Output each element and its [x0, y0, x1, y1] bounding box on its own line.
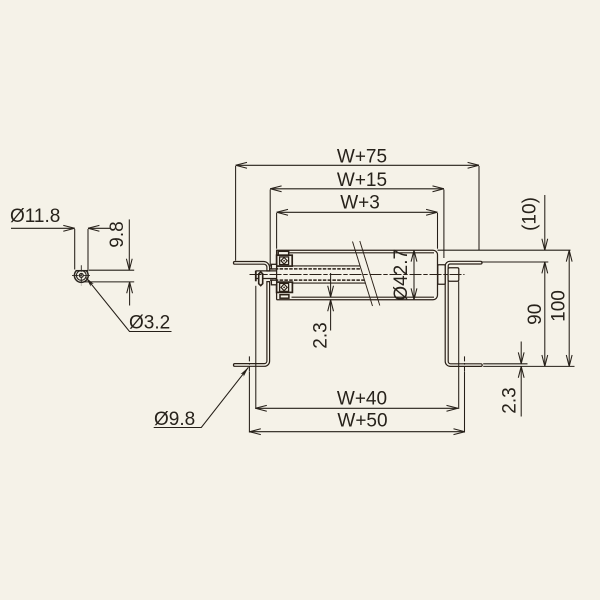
bottom bearing body: [277, 282, 293, 292]
right frame channel: [445, 261, 482, 366]
dim 2.3 left lower arrow: [330, 300, 332, 331]
bearing sleeve bottom line: [292, 282, 366, 284]
left shaft top edge: [256, 270, 277, 272]
ext dia11.8 left: [74, 229, 76, 270]
bearing sleeve top line: [292, 265, 361, 267]
right hole centerline and ext: [464, 356, 466, 371]
ext line shaft end left down: [255, 286, 257, 409]
ext line shaft end right down: [458, 282, 460, 410]
detail crosshair horizontal: [72, 274, 91, 276]
detail flat top: [76, 270, 89, 272]
dim W+50: [249, 431, 465, 433]
bottom bearing seal tab: [271, 280, 276, 285]
svg-text:W+75: W+75: [337, 147, 387, 168]
dim W+15: [270, 188, 444, 190]
break line right: [360, 241, 380, 306]
left frame web and bottom flange: [233, 282, 269, 367]
dim W+75: [236, 164, 479, 166]
bottom bearing ball center: [283, 287, 285, 289]
left shaft end face: [255, 271, 257, 282]
dim dia42.7: [413, 250, 415, 300]
left hole centerline and ext: [248, 356, 250, 371]
right shaft end through frame: [448, 268, 459, 282]
svg-text:W+15: W+15: [337, 170, 387, 191]
ext line W+3 right: [437, 213, 439, 249]
svg-text:9.8: 9.8: [107, 221, 128, 247]
ext 9.8 top: [89, 269, 134, 271]
bottom bearing cap: [280, 295, 289, 299]
dim 2.3 right lower arrow: [520, 366, 522, 416]
svg-text:W+40: W+40: [337, 389, 387, 410]
svg-text:(10): (10): [520, 197, 541, 231]
svg-text:90: 90: [525, 304, 546, 325]
top bearing ball center: [283, 260, 285, 262]
svg-text:W+50: W+50: [337, 411, 387, 432]
leader dia9.8: [154, 367, 249, 427]
dim 100: [568, 250, 570, 366]
dim (10) upper arrow: [544, 195, 546, 250]
ext line flange bottom right: [483, 365, 574, 367]
dim 9.8 upper arrow: [128, 219, 130, 270]
ext line flange top right: [483, 363, 527, 365]
leader dia3.2: [86, 277, 172, 331]
svg-text:100: 100: [549, 290, 570, 322]
ext line W+75 right: [478, 166, 480, 250]
ext line W+3 left: [276, 213, 278, 249]
detail inner circle: [76, 271, 86, 281]
bottom bearing inner race square: [280, 283, 289, 291]
dim W+40: [255, 407, 458, 409]
dim 2.3 left upper arrow: [330, 273, 332, 297]
dim W+3: [277, 211, 438, 213]
right bearing end piece between tube and frame: [438, 265, 445, 285]
roller tube inner wall bottom: [292, 296, 435, 298]
ext line W+15 left: [269, 190, 271, 267]
svg-text:2.3: 2.3: [500, 387, 521, 413]
ext 9.8 bottom: [84, 281, 135, 283]
svg-text:W+3: W+3: [340, 192, 380, 213]
ext line W+75 left: [235, 166, 237, 261]
dim 90: [544, 262, 546, 366]
svg-text:Ø42.7: Ø42.7: [391, 249, 412, 301]
top bearing seal tab: [271, 264, 276, 269]
svg-text:Ø9.8: Ø9.8: [154, 409, 195, 430]
top bearing body: [277, 255, 293, 266]
dim dia11.8 left arrow: [11, 227, 75, 229]
detail center hole: [79, 274, 83, 278]
hex shaft hidden top: [270, 268, 361, 270]
roller axis centerline: [250, 274, 465, 276]
hex shaft hidden bottom: [270, 279, 365, 281]
break line left: [353, 242, 373, 307]
roller tube inner wall top: [289, 252, 434, 254]
dim 2.3 right upper arrow: [520, 342, 522, 364]
ext dia11.8 right: [87, 229, 89, 271]
detail crosshair vertical: [80, 265, 82, 285]
ext line roller top level right: [438, 249, 571, 251]
ext line W+15 right: [443, 190, 445, 259]
dim dia11.8 right arrow: [88, 227, 111, 229]
roller tube body: [277, 250, 438, 300]
left shaft bottom edge: [256, 278, 277, 280]
svg-text:2.3: 2.3: [311, 322, 332, 348]
ext line frame top level right: [481, 261, 548, 263]
svg-text:Ø11.8: Ø11.8: [10, 206, 60, 227]
left frame top flange: [233, 262, 269, 272]
bottom bearing ball diamond: [281, 284, 287, 291]
shaft retaining clip oval: [259, 272, 263, 286]
dim 9.8 lower arrow: [129, 282, 131, 306]
detail outer circle: [74, 271, 88, 283]
top bearing ball diamond: [281, 257, 287, 264]
svg-text:Ø3.2: Ø3.2: [129, 313, 170, 334]
top bearing cap: [278, 251, 289, 255]
top bearing inner race square: [280, 257, 289, 265]
